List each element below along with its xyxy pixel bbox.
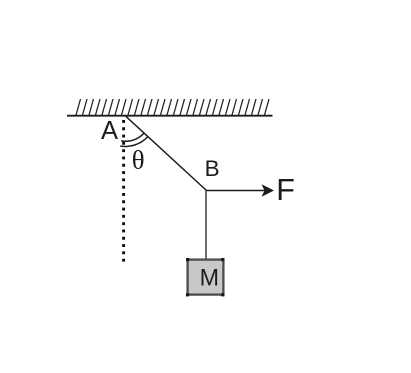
svg-text:M: M	[200, 264, 219, 291]
svg-text:B: B	[205, 156, 220, 181]
force arrow shaft	[207, 190, 267, 192]
mass block M	[188, 260, 224, 295]
ceiling hatching	[76, 99, 269, 115]
mass block corner dots	[186, 258, 224, 296]
wire B to mass	[205, 191, 207, 260]
angle arc inner	[121, 133, 144, 141]
string A to B	[126, 116, 207, 191]
angle arc outer	[120, 137, 147, 147]
vertical dotted reference line	[122, 120, 125, 262]
svg-text:A: A	[101, 117, 118, 145]
svg-text:θ: θ	[132, 145, 145, 175]
svg-text:F: F	[276, 173, 295, 207]
ceiling line	[67, 115, 273, 117]
force arrowhead	[262, 184, 275, 197]
